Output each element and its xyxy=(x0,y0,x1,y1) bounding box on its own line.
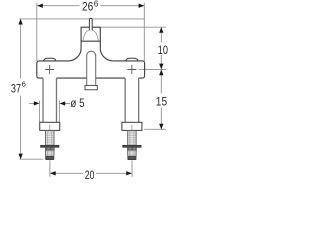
svg-text:15: 15 xyxy=(156,95,168,109)
right leg lower thread hatching xyxy=(128,151,136,154)
right leg washer plate xyxy=(123,145,141,147)
right extension line at body center xyxy=(139,68,166,70)
right leg stud body fill xyxy=(128,130,136,156)
left leg collar knurl lines xyxy=(47,148,54,151)
left inlet dome bump on bar top xyxy=(44,58,56,60)
dimension o5 right arrow xyxy=(60,101,66,105)
dimension 26-6 left arrow xyxy=(37,4,43,8)
left leg upper stud outline xyxy=(46,130,55,145)
right extension line at nut level xyxy=(144,128,166,130)
left leg lower stud inner lines xyxy=(48,150,52,156)
dimension 10 bottom arrow xyxy=(159,64,163,70)
dimension 26-6 right arrow xyxy=(139,4,145,8)
left leg nut facet line xyxy=(49,125,51,131)
dimension 26-6 line xyxy=(37,5,144,7)
right leg upper thread hatching xyxy=(128,132,136,145)
right leg upper stud inner lines xyxy=(130,130,134,145)
cartridge head bottom line xyxy=(81,40,100,42)
dimension 10 top arrow xyxy=(159,27,163,33)
dimension o5 left extension line xyxy=(39,101,41,123)
dimension o5 left leader xyxy=(29,102,34,104)
left leg upper stud inner lines xyxy=(48,130,52,145)
right leg mounting nut xyxy=(122,122,142,130)
right leg supply pipe xyxy=(125,78,138,122)
body right flare curve xyxy=(100,48,113,61)
left leg stud end tip xyxy=(46,156,54,159)
left leg washer plate xyxy=(41,145,59,147)
svg-text:6: 6 xyxy=(22,79,26,88)
dimension o5 right extension line xyxy=(58,101,60,123)
right leg lower stud outline xyxy=(128,150,136,156)
dimension 20 line xyxy=(50,172,132,174)
svg-text:37: 37 xyxy=(11,81,21,95)
cartridge dome arc xyxy=(83,30,98,41)
bottom reference line at stud tip level xyxy=(20,158,43,160)
dimension 37-6 top arrow xyxy=(18,19,22,25)
right inlet dome bump on bar top xyxy=(126,58,138,60)
spout end cap xyxy=(85,85,97,89)
right leg lower stud inner lines xyxy=(130,150,134,156)
dimension 15 top arrow xyxy=(159,70,163,76)
dimension 20 left arrow xyxy=(50,171,56,175)
svg-text:20: 20 xyxy=(85,168,95,180)
dimension 15 bottom arrow xyxy=(159,124,163,130)
right extension line at head top xyxy=(101,26,166,28)
right leg knurled collar xyxy=(128,147,137,150)
svg-text:ø 5: ø 5 xyxy=(70,96,84,110)
left leg upper thread hatching xyxy=(46,132,54,145)
dimension 37-6 line xyxy=(20,19,22,159)
right leg stud end tip xyxy=(128,156,136,159)
left leg lower thread hatching xyxy=(46,151,54,154)
svg-text:10: 10 xyxy=(158,43,168,57)
stem pin xyxy=(89,18,92,30)
dimension o5 left arrow xyxy=(34,101,40,105)
left inlet cross mark xyxy=(45,65,54,74)
dimension 26-6 left extension line xyxy=(36,3,38,61)
cartridge head block sides xyxy=(81,27,100,48)
dimension 20 right extension line xyxy=(131,161,133,177)
svg-text:6: 6 xyxy=(94,0,99,8)
right dimension line 10/15 xyxy=(160,27,162,129)
right inlet cross mark xyxy=(127,65,136,74)
dimension 26-6 right extension line xyxy=(143,3,145,61)
body left flare curve xyxy=(68,48,81,61)
left leg knurled collar xyxy=(45,147,54,150)
svg-text:26: 26 xyxy=(82,0,94,14)
dimension o5 right leader xyxy=(65,103,70,105)
right leg upper stud outline xyxy=(128,130,136,145)
left leg mounting nut xyxy=(40,122,60,130)
left leg supply pipe xyxy=(43,78,57,122)
top reference line at stem top level xyxy=(20,18,145,20)
cartridge head top edge xyxy=(81,26,101,28)
dimension 20 right arrow xyxy=(126,171,132,175)
spout tube xyxy=(87,51,96,85)
mixer body bar outline xyxy=(37,61,145,78)
right leg collar knurl lines xyxy=(129,148,136,151)
left leg stud body fill xyxy=(46,130,55,156)
dimension 20 left extension line xyxy=(49,161,51,177)
right leg nut facet line xyxy=(131,125,133,131)
left leg lower stud outline xyxy=(46,150,55,156)
dimension 37-6 bottom arrow xyxy=(18,154,22,160)
